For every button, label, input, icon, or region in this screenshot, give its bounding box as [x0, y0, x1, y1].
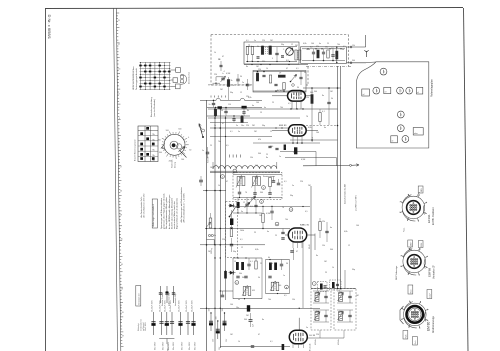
svg-text:340: 340 — [260, 192, 263, 194]
svg-text:EL 95: EL 95 — [310, 335, 316, 337]
svg-text:30p: 30p — [290, 195, 293, 197]
filter boxlet B above cans — [330, 280, 342, 290]
capacitor C21 — [212, 102, 215, 104]
svg-text:30p: 30p — [233, 251, 236, 253]
resistor R30 — [230, 228, 233, 237]
svg-text:30p: 30p — [281, 44, 284, 46]
svg-text:1: 1 — [119, 143, 120, 145]
tube location panel outline — [356, 62, 429, 148]
capacitor C19 — [220, 64, 223, 66]
capacitor C20b — [236, 78, 239, 80]
IF can T1 dashed box — [311, 289, 331, 331]
svg-text:53: 53 — [120, 191, 122, 193]
svg-text:Abstimmanzeige: Abstimmanzeige — [432, 315, 435, 333]
svg-text:UKW TA KW MW LW Aus: UKW TA KW MW LW Aus — [132, 66, 135, 90]
wire drop to V5 — [298, 318, 300, 331]
volume potentiometer P1 — [209, 218, 212, 228]
svg-text:DM71 Anzeige: DM71 Anzeige — [395, 265, 398, 280]
svg-text:5n: 5n — [336, 57, 338, 59]
detector top rail — [302, 48, 345, 50]
bus wire C — [219, 108, 221, 348]
panel tube symbol ECH81 — [406, 87, 413, 94]
svg-text:6,8: 6,8 — [250, 206, 253, 208]
svg-text:k: k — [407, 220, 408, 222]
svg-text:12: 12 — [240, 92, 242, 94]
switch position table — [138, 126, 158, 162]
svg-text:Elko 385V: Elko 385V — [163, 341, 165, 350]
svg-text:49: 49 — [120, 215, 122, 217]
svg-text:6k: 6k — [268, 257, 270, 259]
bus-mounted electrolytics bottom — [210, 313, 212, 331]
svg-text:76: 76 — [245, 192, 247, 194]
svg-text:k: k — [408, 327, 409, 329]
panel part box 2 — [384, 87, 391, 93]
svg-text:30: 30 — [284, 147, 286, 149]
capacitor C5 — [275, 52, 278, 54]
svg-text:12: 12 — [291, 44, 293, 46]
tube socket ECH81 pin circles — [411, 258, 412, 259]
svg-text:5n: 5n — [238, 131, 240, 133]
svg-text:70k: 70k — [268, 299, 271, 301]
svg-text:2n: 2n — [242, 82, 244, 84]
circled letter p — [235, 281, 239, 285]
svg-text:1: 1 — [384, 72, 385, 74]
wire: antenna feed upper — [347, 46, 366, 48]
dial cam notch — [162, 144, 166, 150]
svg-text:0,1: 0,1 — [240, 239, 243, 241]
svg-text:EBF 89: EBF 89 — [279, 125, 287, 127]
svg-text:g: g — [408, 194, 409, 196]
svg-text:Gemessen mit: Gemessen mit — [138, 293, 141, 305]
svg-text:5n: 5n — [292, 185, 294, 187]
svg-text:D Nr. c 6/98/1: D Nr. c 6/98/1 — [47, 15, 52, 40]
svg-text:8n: 8n — [266, 157, 268, 159]
legend: padding capacitor symbol — [166, 286, 168, 303]
svg-text:8k: 8k — [247, 110, 249, 112]
wire FM box top rail — [246, 46, 297, 48]
svg-text:1n: 1n — [316, 292, 318, 294]
sheet top border — [45, 8, 463, 9]
wire row under mixer — [208, 108, 338, 110]
wire row 2 under mixer — [208, 117, 300, 119]
test point d — [289, 208, 293, 212]
svg-text:57: 57 — [120, 167, 122, 169]
svg-text:(von der Ruckseite): (von der Ruckseite) — [153, 99, 156, 117]
svg-text:21: 21 — [118, 20, 120, 22]
legend: trimmer capacitor symbol — [160, 286, 162, 303]
cap-resistor pair 1 — [312, 51, 315, 53]
IF amplifier tube V3 EBF89 — [288, 125, 306, 136]
svg-text:s: s — [420, 301, 421, 303]
wire y291 left stub — [220, 290, 233, 292]
svg-text:0,5M: 0,5M — [301, 159, 306, 161]
AF preamp tube V4 EABC80 — [288, 228, 306, 242]
oscillator coil L15 with core — [237, 177, 240, 186]
svg-text:6,8k: 6,8k — [308, 127, 312, 129]
svg-text:1: 1 — [401, 115, 402, 117]
wire bottom rail y346.5 — [220, 346, 290, 348]
svg-text:25: 25 — [266, 154, 268, 156]
svg-text:47k: 47k — [258, 139, 261, 141]
svg-text:2M: 2M — [246, 315, 249, 317]
svg-text:50+50uF 350V: 50+50uF 350V — [170, 299, 172, 312]
wires right of V4 — [310, 186, 312, 288]
svg-text:12k: 12k — [325, 47, 328, 49]
svg-text:230V~: 230V~ — [410, 241, 412, 246]
svg-text:100: 100 — [230, 304, 233, 306]
svg-text:5n: 5n — [306, 327, 308, 329]
svg-text:1n: 1n — [293, 152, 295, 154]
electrolytic C93 — [171, 312, 173, 335]
oscillator trimmer C61 — [253, 192, 256, 194]
svg-text:12: 12 — [348, 245, 350, 247]
bus wire D — [225, 116, 227, 300]
socket 3 label box 4 — [413, 337, 418, 346]
svg-text:1: 1 — [410, 91, 411, 93]
svg-text:300: 300 — [330, 249, 333, 251]
svg-text:4n: 4n — [324, 127, 326, 129]
caps right of oscillator box — [272, 180, 275, 182]
tube socket EM80 lead arcs — [404, 317, 417, 328]
wire: antenna feed lower — [347, 62, 367, 64]
svg-text:5n: 5n — [304, 72, 306, 74]
T1 tuning capacitors — [324, 295, 327, 297]
svg-text:4: 4 — [224, 71, 225, 73]
wire row y122 — [210, 122, 248, 124]
resistor R35 — [319, 222, 321, 231]
svg-text:8n: 8n — [246, 66, 248, 68]
svg-text:100: 100 — [311, 43, 314, 45]
svg-text:Elko 385V: Elko 385V — [195, 341, 197, 350]
resistor R70 — [282, 344, 285, 350]
band switch long wire y100 with hop-overs — [200, 99, 206, 101]
svg-text:70: 70 — [232, 85, 234, 87]
svg-text:Alle Spannungen mit Rohrenvolt: Alle Spannungen mit Rohrenvoltmeter — [180, 187, 183, 222]
svg-text:25: 25 — [275, 235, 277, 237]
svg-text:0,5: 0,5 — [284, 295, 287, 297]
svg-text:6,8k: 6,8k — [303, 43, 307, 45]
svg-text:1: 1 — [401, 91, 402, 93]
svg-text:30: 30 — [240, 76, 242, 78]
svg-text:EM 80: EM 80 — [427, 322, 431, 331]
svg-text:6,8k: 6,8k — [248, 97, 252, 99]
capacitor C6 — [281, 55, 284, 57]
svg-text:300: 300 — [258, 153, 261, 155]
sub-screen box second row — [253, 71, 306, 93]
interstage transformer T0 — [295, 50, 297, 60]
svg-text:5n: 5n — [214, 235, 216, 237]
svg-text:0,1: 0,1 — [249, 46, 252, 48]
FM oscillator section V1 with tuning arrow — [286, 48, 294, 56]
capacitor C13 — [331, 54, 334, 56]
electrolytic C95 — [187, 312, 189, 335]
svg-text:2M: 2M — [252, 125, 255, 127]
tube socket ECH81 lead arcs — [403, 265, 416, 276]
svg-text:4n: 4n — [330, 227, 332, 229]
svg-text:1n: 1n — [283, 275, 285, 277]
svg-text:300: 300 — [242, 277, 245, 279]
switch lever S2b — [249, 196, 256, 204]
svg-text:220: 220 — [316, 334, 319, 336]
V5 pin stubs — [292, 344, 294, 348]
svg-text:15k: 15k — [322, 245, 325, 247]
svg-text:Rohrenlageplan: Rohrenlageplan — [431, 79, 434, 97]
svg-text:29: 29 — [122, 336, 124, 338]
boxed note Gemessen mit — [136, 286, 141, 307]
triode-hexode mixer tube V2 ECH81 — [288, 91, 306, 102]
svg-text:70: 70 — [306, 116, 308, 118]
svg-text:EBF89: EBF89 — [428, 267, 432, 277]
capacitor C22 — [224, 110, 227, 112]
svg-text:70k: 70k — [337, 44, 340, 46]
panel part box 5 — [391, 136, 398, 143]
pushbutton switch bank S1 contact matrix — [140, 62, 142, 90]
svg-text:Zwischenkreis fur AM: Zwischenkreis fur AM — [344, 184, 347, 204]
tube socket EF91 lead arcs — [402, 211, 415, 222]
oscillator coil L17 — [269, 178, 272, 187]
svg-text:1n: 1n — [279, 156, 281, 158]
FM coil L1 — [261, 46, 264, 55]
wire FM box to dashed edge — [208, 84, 253, 86]
svg-text:47: 47 — [296, 251, 298, 253]
svg-text:15k: 15k — [306, 97, 309, 99]
ferrite rod core lines — [210, 170, 280, 172]
trimmer C63 — [245, 203, 248, 205]
svg-text:Skalenseil-: Skalenseil- — [172, 159, 174, 168]
note box Anderungen vorbehalten — [152, 199, 157, 228]
svg-text:50+50uF 350V: 50+50uF 350V — [178, 299, 180, 312]
svg-text:1k: 1k — [332, 267, 334, 269]
svg-text:g: g — [419, 327, 420, 329]
resistor R52 (block B) — [274, 263, 277, 271]
wire y157 with corner — [285, 157, 336, 159]
svg-text:0: 0 — [188, 137, 189, 139]
svg-text:220: 220 — [258, 69, 261, 71]
resistor R40 in detector box — [336, 51, 338, 59]
svg-text:0,1: 0,1 — [246, 40, 249, 42]
svg-text:Elko 385V: Elko 385V — [173, 341, 175, 350]
svg-text:Anderungen vorbehalten!: Anderungen vorbehalten! — [152, 204, 155, 227]
svg-text:41: 41 — [121, 264, 123, 266]
filter boxlet A above cans — [318, 282, 328, 292]
tick group y156 — [229, 155, 231, 158]
capacitor C43 — [270, 210, 273, 212]
panel tube symbol EBF89 — [397, 87, 404, 94]
svg-text:s: s — [419, 194, 420, 196]
wire grid to mixer — [272, 95, 287, 97]
diode D2 — [229, 272, 236, 274]
svg-text:Seilrolle: Seilrolle — [208, 157, 210, 163]
capacitor C24 — [232, 118, 235, 120]
svg-text:9: 9 — [272, 58, 273, 60]
socket 2 boxed label b — [418, 241, 423, 248]
svg-text:6,8: 6,8 — [286, 60, 289, 62]
mixer pin leads — [291, 101, 293, 109]
svg-text:13: 13 — [118, 69, 120, 71]
svg-text:keramisch 50p: keramisch 50p — [174, 294, 177, 306]
svg-text:47: 47 — [222, 123, 224, 125]
FM coil L2 — [269, 46, 272, 55]
junction dots AF — [214, 257, 215, 258]
T2 secondary coil — [339, 312, 343, 321]
svg-text:8,2: 8,2 — [310, 47, 313, 49]
svg-text:1k: 1k — [266, 68, 268, 70]
black capacitor C40 — [230, 218, 233, 225]
panel tube symbol EC92a — [397, 111, 404, 118]
wire stub left — [213, 82, 221, 84]
oscillator coil L16 with core — [253, 177, 256, 186]
wire row y136 — [210, 136, 272, 138]
T1 primary coil — [315, 293, 319, 302]
tube socket EM80 pin stubs — [425, 319, 428, 320]
socket 3 label box 3 — [403, 331, 408, 340]
output tube V5 EL95 — [289, 330, 307, 344]
panel tube symbol EC92b — [397, 125, 404, 132]
circled letter k — [221, 175, 225, 179]
resistor R17 — [241, 117, 244, 123]
svg-text:47: 47 — [226, 181, 228, 183]
svg-text:1k: 1k — [231, 80, 233, 82]
tick marks group — [210, 96, 212, 98]
svg-text:5: 5 — [119, 118, 120, 120]
svg-text:b: b — [428, 309, 429, 311]
svg-text:500: 500 — [270, 146, 273, 148]
resistor R22 — [319, 113, 321, 122]
svg-text:100: 100 — [256, 102, 259, 104]
FM tuner dashed enclosure — [211, 34, 348, 36]
switch bank output contact box K1 — [176, 68, 181, 73]
tube socket EM80 pin circles — [411, 311, 412, 312]
circled letter h — [262, 186, 266, 190]
svg-text:30: 30 — [342, 49, 344, 51]
tube socket EF91 inner circle — [407, 201, 421, 215]
svg-text:1k: 1k — [214, 125, 216, 127]
svg-text:4n: 4n — [264, 107, 266, 109]
capacitor C41 — [230, 243, 233, 245]
V4 pin drops extended — [293, 248, 295, 260]
FM box second row components — [256, 73, 258, 81]
svg-text:1k: 1k — [214, 52, 216, 54]
svg-text:10n: 10n — [236, 307, 239, 309]
svg-text:220: 220 — [246, 125, 249, 127]
svg-text:12k: 12k — [322, 221, 325, 223]
tube socket ECH81 inner circle — [407, 255, 421, 269]
svg-text:0,5M: 0,5M — [266, 213, 271, 215]
svg-text:Die eingeklammerten Werte gelt: Die eingeklammerten Werte gelten — [165, 196, 168, 229]
wire rail y308 — [200, 307, 320, 309]
svg-text:100: 100 — [316, 132, 319, 134]
AM IF block B frame wires — [266, 259, 290, 261]
switch lever in detector box — [230, 207, 236, 217]
svg-text:1: 1 — [377, 91, 378, 93]
svg-text:47: 47 — [222, 56, 224, 58]
svg-text:400: 400 — [158, 140, 161, 142]
circled letter q — [285, 285, 289, 289]
resistor R21 — [311, 95, 313, 104]
AM IF block A frame wires — [233, 257, 262, 259]
svg-text:33: 33 — [122, 312, 124, 314]
wire top right rail — [303, 87, 341, 89]
switch bank output contact box K2 — [173, 78, 178, 83]
svg-text:Verstarker ZF: Verstarker ZF — [433, 264, 436, 279]
svg-text:4n: 4n — [267, 231, 269, 233]
wire row y190 — [203, 190, 226, 192]
T2 primary coil — [339, 293, 343, 302]
panel tube symbol EL95 — [402, 136, 409, 143]
svg-text:g: g — [419, 274, 420, 276]
socket 3 label box 2 — [427, 290, 432, 299]
svg-text:220: 220 — [300, 181, 303, 183]
wire row y213 — [233, 212, 262, 214]
svg-text:25: 25 — [254, 232, 256, 234]
svg-text:47: 47 — [286, 68, 288, 70]
svg-text:6,8k: 6,8k — [344, 231, 348, 233]
svg-text:110: 110 — [228, 104, 231, 106]
capacitor C23 — [242, 111, 245, 113]
tube socket EM80 heavy ring — [407, 306, 424, 323]
svg-text:ECH81 Oszillator: ECH81 Oszillator — [432, 207, 435, 225]
svg-text:600: 600 — [178, 129, 181, 131]
svg-text:2M: 2M — [295, 45, 298, 47]
svg-text:API-Oszillatorkreis 27 +-0,5 k: API-Oszillatorkreis 27 +-0,5 kHz — [183, 193, 186, 223]
svg-text:4n: 4n — [238, 299, 240, 301]
svg-text:50+50uF 350V: 50+50uF 350V — [186, 299, 188, 312]
T2 tuning capacitors — [348, 295, 351, 297]
svg-text:100k: 100k — [240, 230, 244, 232]
resistor R43 — [255, 261, 257, 269]
electrolytic C96 — [193, 312, 195, 335]
resistor R48 on bus — [224, 271, 227, 279]
wires FM box bottom rail — [244, 64, 308, 66]
svg-text:50+50uF 350V: 50+50uF 350V — [191, 299, 193, 312]
block B coil pair — [271, 282, 274, 291]
ferrite antenna coil L20 — [213, 166, 277, 169]
svg-text:Tastenaggregat Ansicht: Tastenaggregat Ansicht — [135, 68, 138, 90]
svg-text:47k: 47k — [316, 46, 319, 48]
capacitor C71 — [249, 319, 253, 321]
svg-text:Ansicht Bedienungstasten: Ansicht Bedienungstasten — [133, 139, 136, 161]
capacitor C59 on bus — [221, 294, 224, 296]
circled letter r — [312, 282, 316, 286]
svg-text:30p: 30p — [262, 125, 265, 127]
svg-text:5k: 5k — [258, 277, 260, 279]
svg-text:Netz: Netz — [410, 289, 413, 293]
svg-text:17: 17 — [118, 44, 120, 46]
svg-text:100: 100 — [209, 309, 211, 312]
resistor R32 — [262, 214, 264, 223]
svg-text:12: 12 — [241, 247, 243, 249]
svg-text:0,5M: 0,5M — [226, 73, 231, 75]
svg-text:100: 100 — [356, 225, 359, 227]
svg-text:Elko 385V: Elko 385V — [155, 341, 157, 350]
FM box bottom rail — [246, 61, 297, 63]
wire V3 left — [272, 129, 288, 131]
svg-text:300: 300 — [244, 319, 247, 321]
svg-text:100: 100 — [259, 215, 262, 217]
svg-text:1n: 1n — [251, 61, 253, 63]
svg-text:100: 100 — [215, 317, 217, 320]
svg-text:8n: 8n — [322, 95, 324, 97]
wire row y128 left of V3 — [210, 127, 288, 129]
svg-text:0,5: 0,5 — [226, 145, 229, 147]
svg-text:sonst andere Werte durch den: sonst andere Werte durch den — [173, 200, 176, 229]
svg-text:g: g — [409, 248, 410, 250]
svg-text:15k: 15k — [250, 157, 253, 159]
svg-text:455: 455 — [252, 290, 255, 292]
panel part box 3 — [416, 87, 422, 94]
resistor R16 — [242, 106, 247, 109]
capacitor C52 — [236, 275, 239, 277]
